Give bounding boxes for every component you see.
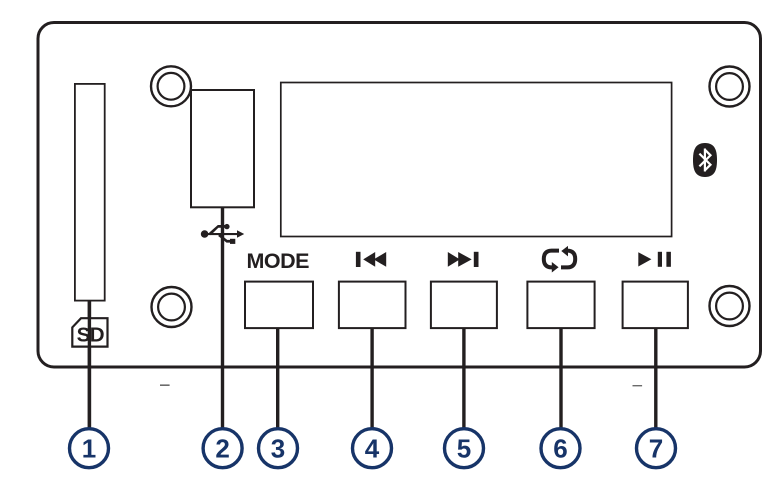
- callout 1: [70, 429, 109, 468]
- leader line 2 (USB): [221, 207, 224, 428]
- MODE button: [245, 282, 313, 329]
- svg-text:7: 7: [649, 433, 663, 463]
- panel outline: [38, 23, 761, 368]
- mounting hole bottom-right: [710, 286, 750, 326]
- callout 7: [637, 429, 676, 468]
- prev button: [339, 282, 406, 329]
- callout 6: [541, 429, 580, 468]
- svg-text:MODE: MODE: [246, 249, 309, 273]
- leader line 3 (MODE button): [276, 328, 279, 428]
- display window: [281, 83, 672, 237]
- next-track icon: [448, 252, 479, 267]
- callout 2: [203, 429, 242, 468]
- svg-text:4: 4: [365, 433, 380, 463]
- svg-text:SD: SD: [77, 323, 104, 346]
- SD label: [72, 318, 107, 346]
- play button: [623, 282, 688, 329]
- svg-text:5: 5: [457, 433, 471, 463]
- leader line 4 (prev button): [370, 328, 373, 428]
- leader line 5 (next button): [462, 328, 465, 428]
- repeat button: [527, 282, 594, 329]
- leader line 1 (SD card): [88, 301, 91, 428]
- leader line 6 (repeat button): [559, 328, 562, 428]
- prev-track icon: [356, 252, 386, 267]
- callout 5: [445, 429, 484, 468]
- SD card slot: [75, 84, 105, 301]
- SD label leader segment over box: [88, 301, 91, 428]
- mounting hole bottom-left: [152, 287, 192, 327]
- repeat icon: [544, 251, 575, 268]
- play/pause icon: [638, 252, 671, 267]
- USB connector: [191, 90, 254, 207]
- mounting hole top-right: [710, 67, 750, 107]
- svg-text:3: 3: [271, 433, 285, 463]
- callout 3: [259, 429, 298, 468]
- stray dash left: [160, 384, 170, 386]
- Bluetooth logo: [693, 143, 717, 177]
- callout 4: [353, 429, 392, 468]
- svg-text:6: 6: [553, 433, 567, 463]
- svg-text:1: 1: [82, 433, 96, 463]
- next button: [431, 282, 497, 329]
- USB icon: [201, 224, 244, 244]
- mounting hole top-left: [151, 66, 191, 106]
- leader line 7 (play button): [654, 328, 657, 428]
- svg-text:2: 2: [215, 433, 229, 463]
- stray dash right: [633, 385, 643, 386]
